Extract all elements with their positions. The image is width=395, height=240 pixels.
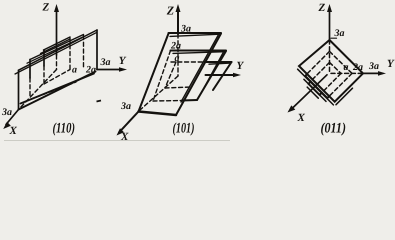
- plane P1 left edge hidden: [165, 62, 176, 88]
- X axis hidden: [140, 76, 178, 110]
- svg-text:Z: Z: [166, 4, 175, 18]
- Z axis hidden: [177, 34, 179, 76]
- X axis: [6, 110, 19, 125]
- plane D3 thickness SW: [298, 69, 334, 105]
- card C3 bottom front edge: [21, 74, 95, 104]
- card C1 right edge hidden: [69, 38, 71, 69]
- arrowhead Z right: [327, 4, 332, 12]
- plane P1 bottom edge hidden: [165, 87, 192, 88]
- Y axis hidden: [331, 72, 361, 74]
- card C1 left edge hidden: [43, 66, 45, 84]
- arrowhead X right: [288, 105, 296, 112]
- card C3 bottom edge: [19, 72, 96, 110]
- plane P3 left edge: [139, 34, 169, 112]
- arrowhead X left: [3, 122, 11, 129]
- svg-text:(011): (011): [321, 121, 347, 137]
- X axis hidden: [19, 70, 57, 110]
- svg-text:(110): (110): [53, 121, 76, 137]
- plane D1 solid edges: [309, 81, 322, 95]
- card C3 left edge: [18, 70, 20, 109]
- svg-text:3a: 3a: [180, 24, 191, 35]
- X axis: [119, 112, 139, 133]
- svg-text:X: X: [120, 131, 129, 143]
- plane P3 right edge thickness: [181, 35, 218, 102]
- plane D2 thickness SW: [304, 79, 326, 101]
- svg-text:3a: 3a: [1, 107, 12, 118]
- card C2 top thickness: [27, 37, 83, 63]
- plane P2 left edge hidden: [153, 51, 171, 102]
- svg-text:X: X: [297, 112, 306, 124]
- arrowhead Y mid: [233, 73, 241, 78]
- arrowhead X mid: [117, 128, 125, 135]
- plane P1 top edge hidden: [171, 61, 205, 63]
- plane D2 hidden SE edge: [329, 73, 352, 96]
- plane D3 thickness SE: [336, 88, 353, 105]
- arrowhead Z left: [54, 4, 59, 12]
- arrowhead Y left: [119, 67, 127, 72]
- card C3 top edge: [19, 30, 98, 70]
- Z axis: [177, 10, 179, 34]
- card C3 right edge: [96, 30, 98, 70]
- tick 3a on Z: [331, 37, 337, 39]
- Y axis: [206, 74, 237, 76]
- card C1 left edge: [43, 50, 45, 66]
- X axis: [291, 75, 328, 110]
- svg-text:3a: 3a: [334, 28, 345, 39]
- plane P3 bottom edge: [139, 112, 177, 116]
- card C2 left edge hidden: [29, 78, 31, 97]
- plane P2 top thickness: [173, 52, 225, 54]
- plane P2 right edge: [197, 51, 226, 100]
- svg-text:(101): (101): [173, 121, 195, 137]
- plane P1 right edge: [213, 62, 232, 90]
- arrowhead Z mid: [176, 4, 181, 12]
- plane D2 solid edges: [305, 74, 329, 98]
- card C1 top thickness: [41, 39, 70, 53]
- plane P1 top thickness: [209, 63, 231, 64]
- plane P3 right edge: [176, 34, 221, 116]
- svg-text:3a: 3a: [100, 57, 111, 68]
- plane D1 hidden NW edge: [311, 62, 330, 81]
- plane P3 top thickness: [170, 34, 220, 36]
- svg-text:2a: 2a: [352, 62, 363, 73]
- Z axis hidden: [56, 55, 58, 70]
- Z axis hidden: [329, 40, 331, 73]
- svg-text:X: X: [9, 125, 18, 137]
- Y axis: [97, 69, 122, 71]
- svg-text:2a: 2a: [85, 65, 96, 76]
- card C2 top edge: [30, 35, 84, 60]
- bottom scan line: [4, 140, 230, 142]
- svg-text:Z: Z: [318, 2, 326, 14]
- svg-text:Y: Y: [237, 60, 245, 72]
- card C1 bottom edge hidden: [44, 70, 70, 85]
- svg-text:2a: 2a: [170, 41, 181, 52]
- plane P2 bottom edge: [182, 99, 197, 102]
- Y axis: [361, 72, 381, 74]
- plane D3 outline: [299, 40, 363, 102]
- arrowhead Y right: [378, 71, 386, 76]
- plane D2 hidden NE edge: [330, 51, 353, 73]
- card C2 left edge: [29, 60, 31, 79]
- plane P1 top edge: [205, 61, 232, 63]
- svg-text:3a: 3a: [120, 101, 131, 112]
- svg-text:Y: Y: [387, 58, 395, 70]
- card C2 bottom edge hidden: [30, 82, 76, 100]
- svg-text:a: a: [175, 53, 180, 64]
- plane D1 hidden NE edge: [330, 62, 342, 73]
- svg-text:Z: Z: [42, 2, 50, 14]
- card C2 right edge hidden: [83, 36, 85, 70]
- plane D2 hidden NW edge: [307, 51, 330, 74]
- svg-text:Y: Y: [119, 55, 127, 67]
- plane D1 hidden SE edge: [322, 73, 341, 92]
- plane P2 bottom edge hidden: [153, 100, 183, 103]
- svg-text:a: a: [72, 65, 77, 76]
- Z axis: [329, 10, 331, 40]
- svg-text:3a: 3a: [368, 61, 379, 72]
- card C3 top thickness: [15, 32, 97, 74]
- plane P3 top edge: [169, 32, 222, 34]
- plane D1 thickness SW: [307, 87, 318, 98]
- Z axis: [56, 10, 58, 55]
- plane P2 right edge thickness: [204, 52, 224, 88]
- card C1 top edge: [44, 37, 71, 50]
- svg-text:a: a: [344, 62, 349, 73]
- plane P2 top edge: [171, 50, 227, 52]
- ink speck: [97, 101, 102, 102]
